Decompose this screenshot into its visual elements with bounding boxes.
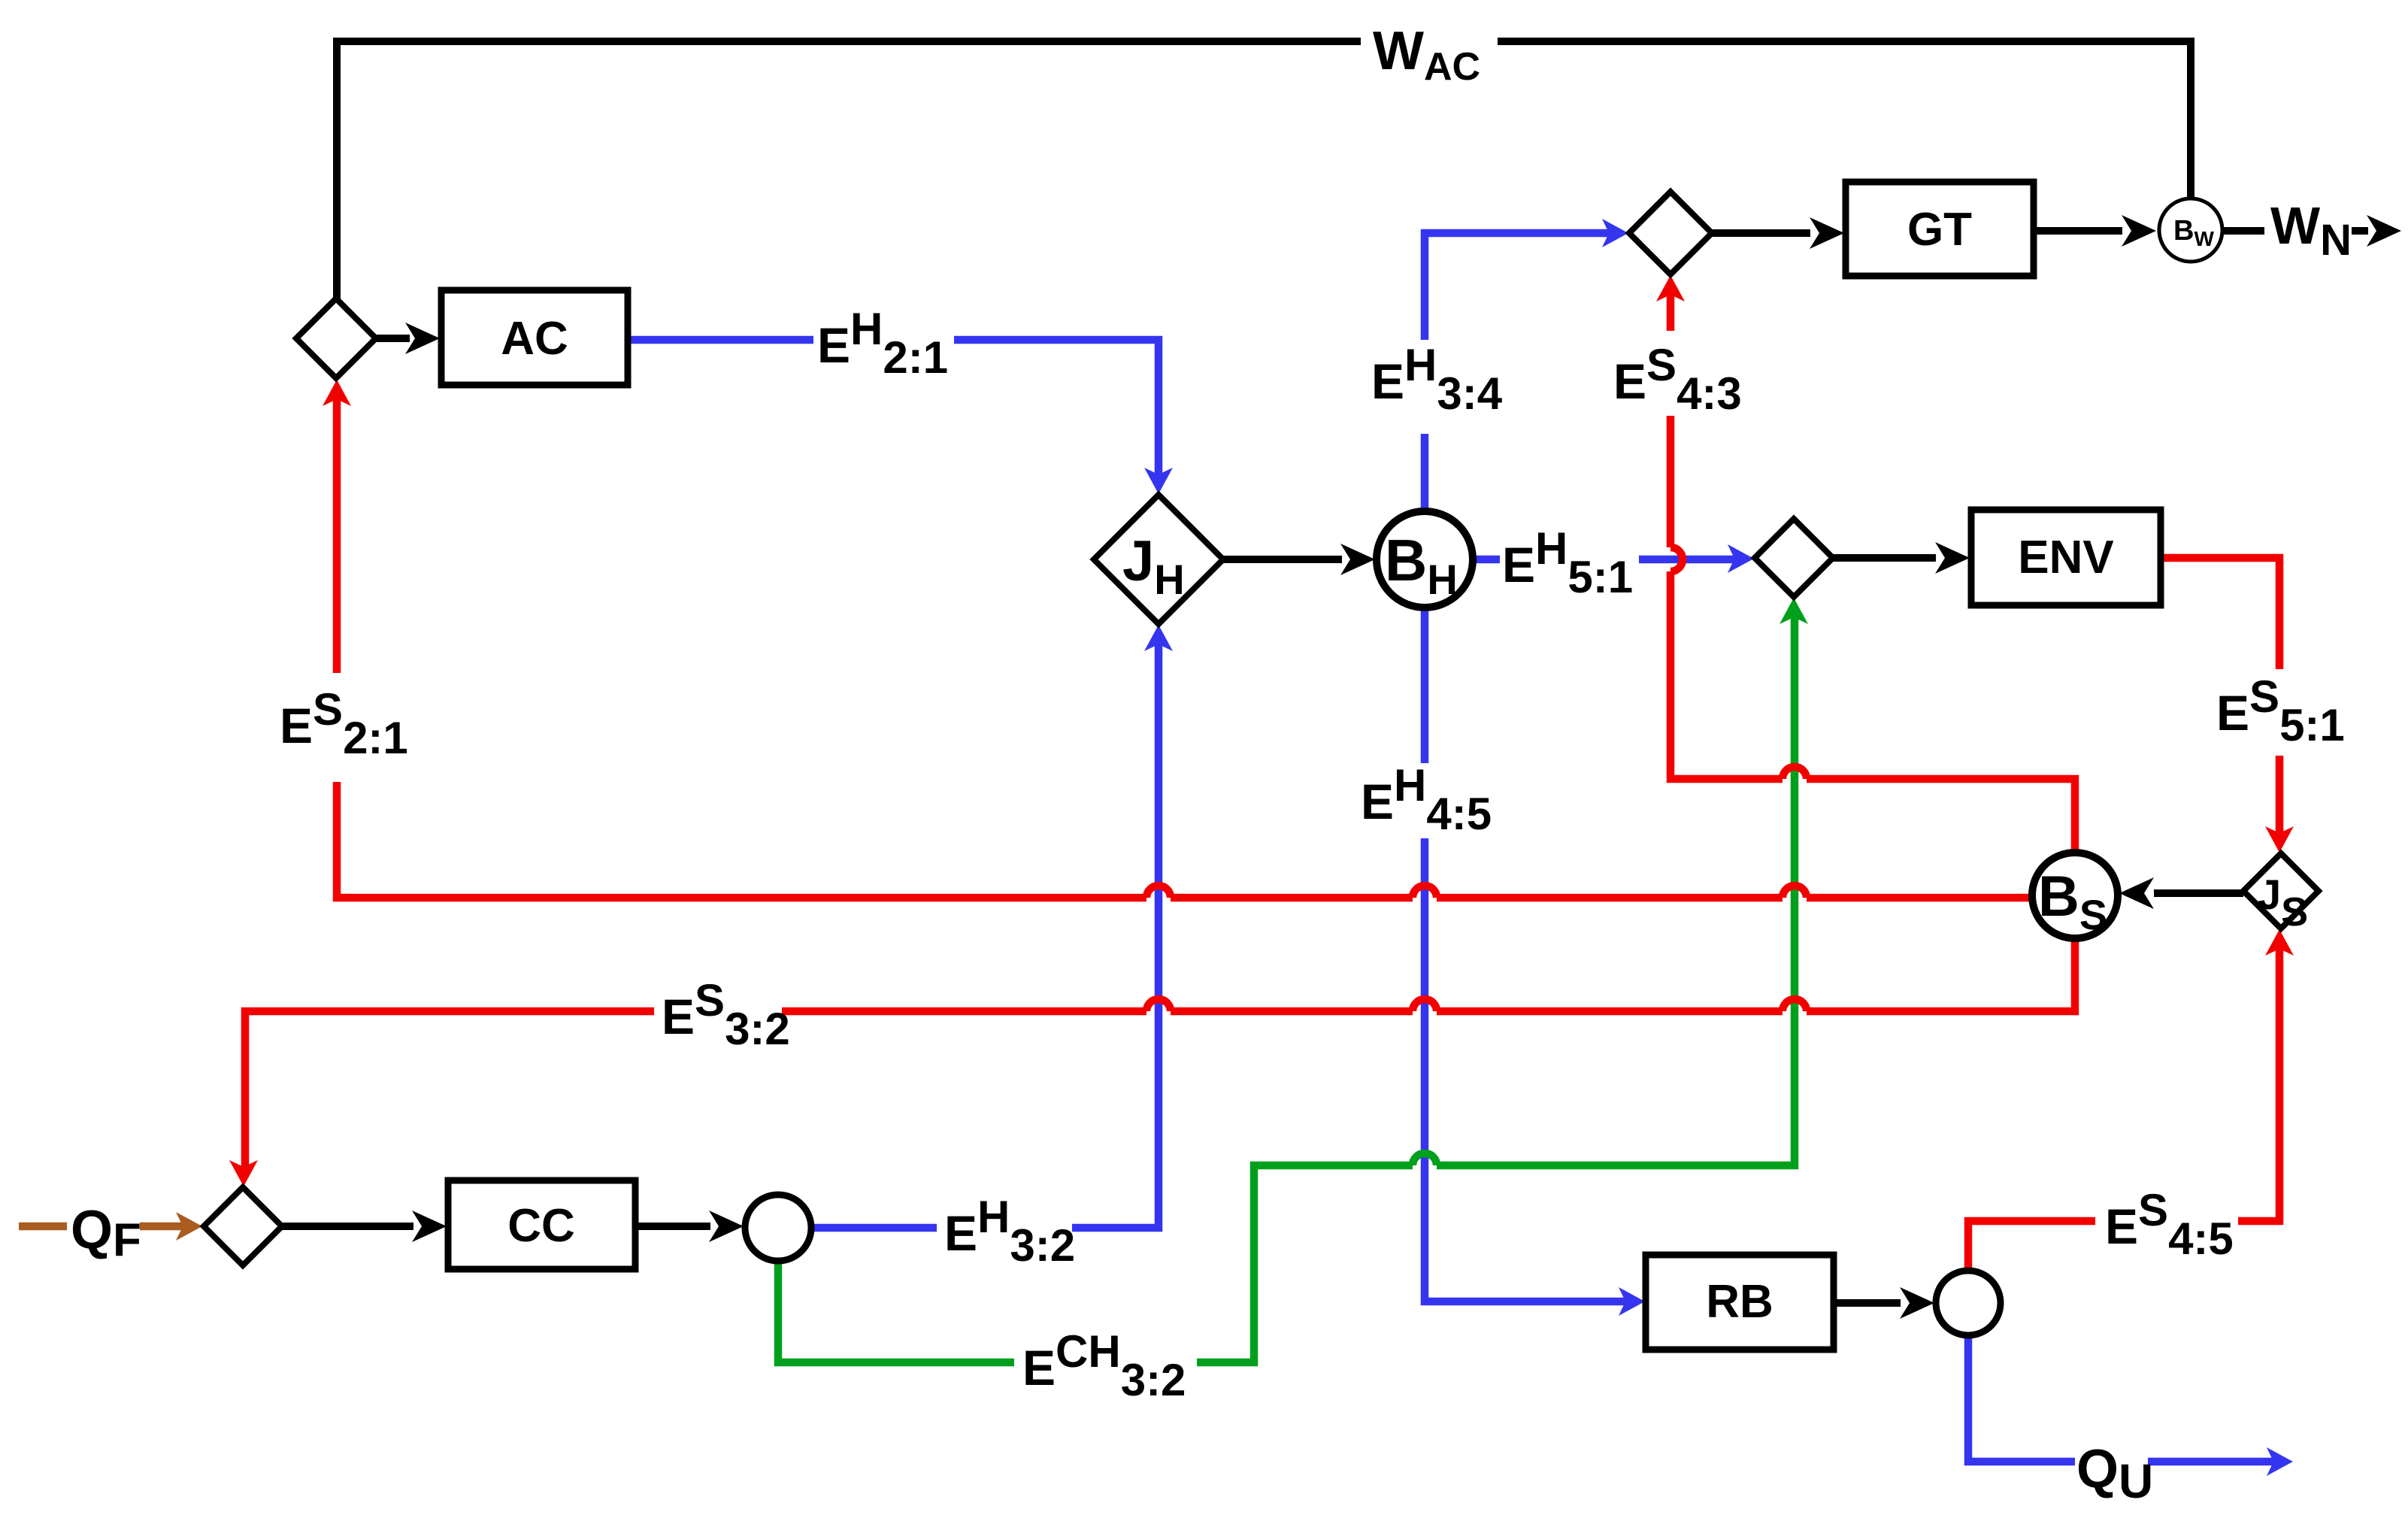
wire EH2:1 (blue, AC to J_H) [628,340,1173,494]
wire EH3:4 (blue, B_H top to GT junction) [1425,219,1628,511]
arrow GT to B_w [2034,215,2156,247]
wire W_N (black, Bw output) [2222,215,2401,247]
junction diamond J_S [2243,853,2319,929]
label EH3:2 [944,1192,1075,1271]
junction circle B_S [2032,853,2118,938]
arrow D1 to AC [376,323,440,354]
wire EH3:2 (blue, CC splitter to J_H) [811,625,1173,1228]
arrow J_H to B_H [1223,544,1375,575]
wire Q_U (blue, useful heat output) [1968,1335,2293,1476]
arrow RB to mixer circle [1834,1287,1934,1319]
junction diamond D2 (ENV inlet) [1755,519,1833,597]
label B_H [1385,527,1458,603]
label B_S [2038,865,2107,938]
wire ES2:1 (red, B_S left to AC junction) [323,380,2032,898]
wire Q_F (brown, fuel input) [19,1212,202,1241]
label Q_F [71,1200,141,1266]
label ES3:2 [662,975,790,1054]
block AC [441,290,628,385]
label EH3:4 [1371,340,1503,419]
junction circle B_w [2159,198,2222,262]
label ES4:3 [1613,340,1742,419]
label EH4:5 [1361,760,1492,839]
svg-text:GT: GT [1907,204,1972,256]
wire ECH3:2 (green, CC splitter to ENV junction) [778,598,1808,1362]
svg-text:RB: RB [1706,1276,1773,1328]
label ES5:1 [2216,671,2345,750]
wire ES3:2 (red, B_S bottom to CC junction) [229,938,2075,1186]
block CC [448,1180,635,1269]
wire EH5:1 (blue, B_H to ENV junction) [1473,544,1754,573]
wire ES4:3 (red, B_S top to GT junction) [1656,275,2075,853]
label Q_U [2076,1439,2153,1508]
arrow D4 to CC [282,1210,447,1242]
label J_H [1122,529,1185,603]
label ES4:5 [2105,1185,2234,1264]
label W_AC [1373,21,1480,89]
wire ES4:5 (red, RB mixer to J_S) [1968,929,2294,1271]
junction diamond J_H [1094,495,1223,624]
arrow D2 to ENV [1833,542,1970,574]
arrow D3 to GT [1712,217,1844,249]
wire W_AC (black, AC-junction to Bw) [337,41,2191,298]
block ENV [1971,510,2161,605]
label EH5:1 [1502,523,1633,602]
block RB [1646,1255,1834,1350]
svg-text:CC: CC [507,1200,575,1252]
arrow CC to splitter circle [635,1210,744,1242]
block GT [1846,182,2034,276]
label ECH3:2 [1022,1326,1186,1405]
label J_S [2258,871,2308,935]
junction diamond D1 (AC inlet) [296,298,376,378]
junction circle C2 (RB outlet) [1936,1271,2001,1335]
svg-text:AC: AC [501,313,568,365]
junction diamond D4 (CC inlet) [204,1187,282,1265]
junction circle C1 (CC outlet splitter) [745,1195,811,1261]
label W_N [2270,196,2352,265]
wire EH4:5 (blue, B_H bottom to RB) [1425,608,1645,1316]
arrow J_S to B_S [2119,877,2243,909]
svg-text:ENV: ENV [2018,532,2113,583]
label EH2:1 [817,304,948,383]
junction circle B_H [1377,511,1473,608]
label ES2:1 [280,684,408,763]
junction diamond D3 (GT inlet) [1629,192,1712,274]
label B_w [2173,215,2214,250]
wire ES5:1 (red, ENV to J_S) [2161,558,2294,853]
